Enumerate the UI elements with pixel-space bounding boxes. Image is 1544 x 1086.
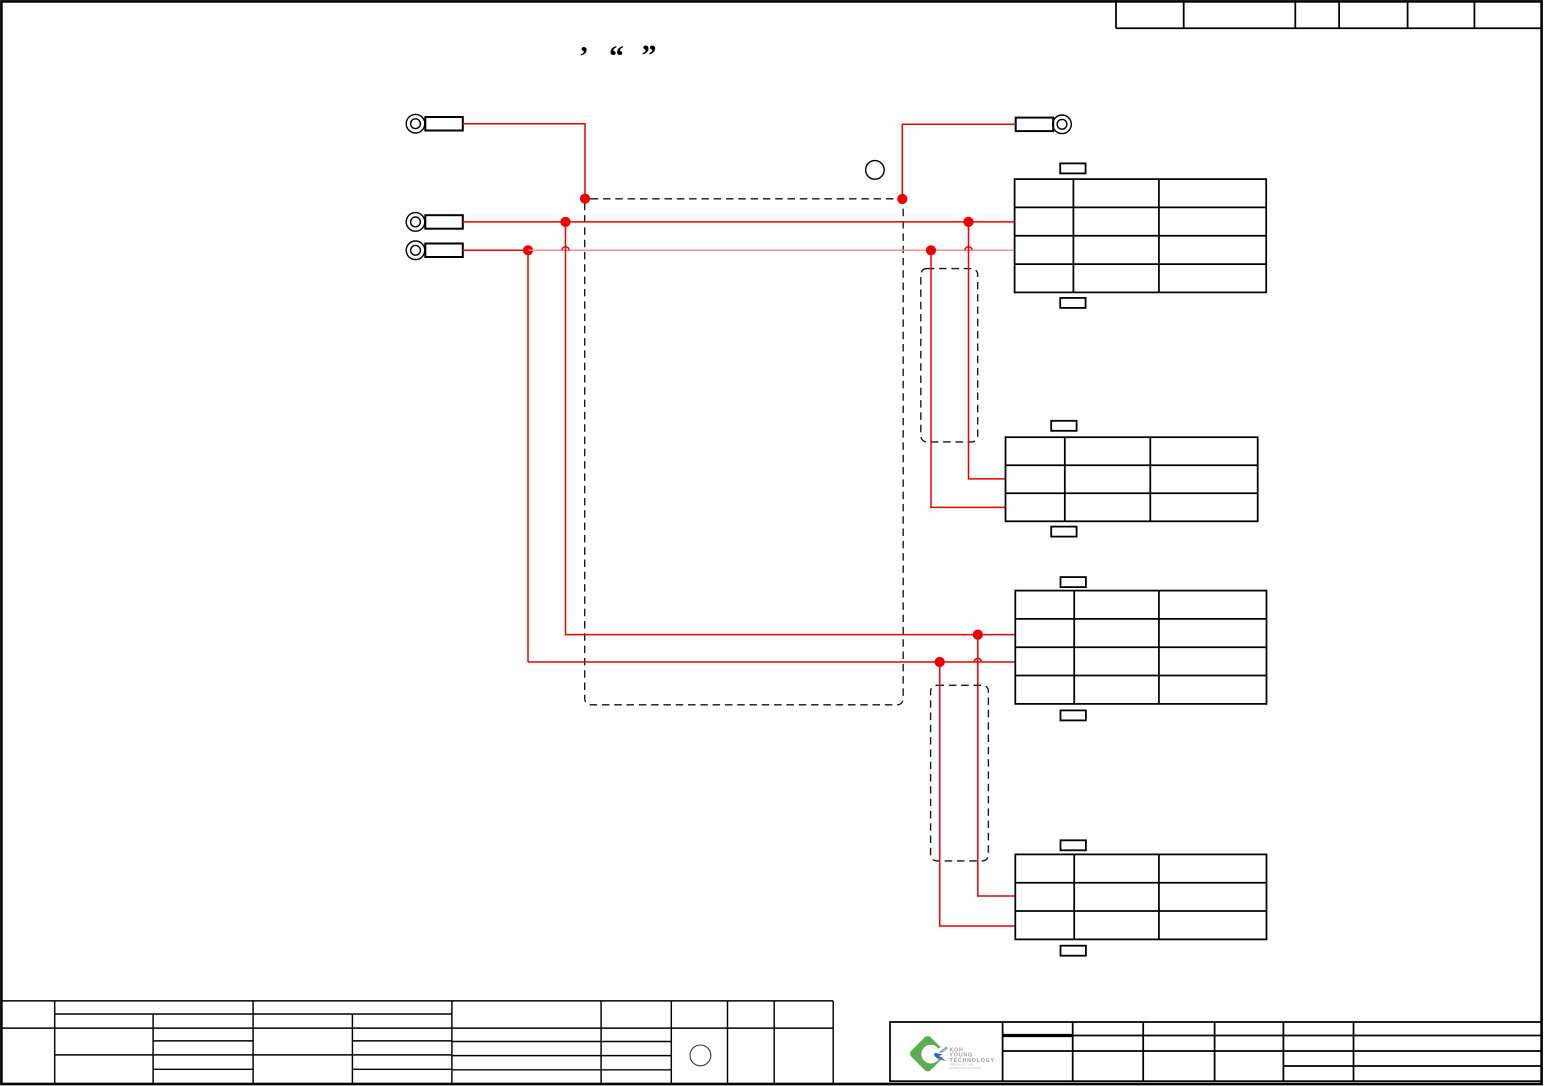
revision strip table top right xyxy=(1116,3,1542,29)
balloon circle xyxy=(866,161,885,180)
label box CN1 bottom xyxy=(1060,298,1085,308)
label box CN3 bottom xyxy=(1061,710,1086,720)
label box CN3 top xyxy=(1061,577,1086,587)
label box CN4 top xyxy=(1061,840,1086,850)
node dot J4 xyxy=(963,217,973,227)
node dot J7 xyxy=(973,630,983,640)
title punctuation marks xyxy=(581,26,657,73)
wire W3 stub xyxy=(463,249,528,251)
ring terminal TR1 xyxy=(1016,115,1072,134)
logo white notch wedge xyxy=(931,1039,953,1061)
hop arc at J3 crossing xyxy=(562,247,569,251)
logo bolt dark part xyxy=(934,1053,947,1062)
label box CN2 top xyxy=(1051,421,1076,431)
logo bolt light part xyxy=(938,1046,948,1053)
ring terminal TL2 xyxy=(406,213,463,232)
wire W1 left xyxy=(463,124,585,199)
node dot J3 xyxy=(560,217,570,227)
ring terminal TL1 xyxy=(406,114,463,133)
connector table CN1 xyxy=(1015,179,1267,292)
wire W1 right xyxy=(902,124,1015,199)
hop arc at J7 crossing xyxy=(974,658,981,662)
label box CN2 bottom xyxy=(1051,527,1076,537)
connector table CN4 xyxy=(1015,854,1266,939)
wire W2 vertical drop xyxy=(566,222,1016,635)
wire to table4 row2 xyxy=(978,635,1016,896)
thick divider segment xyxy=(1003,1034,1073,1037)
svg-text:“: “ xyxy=(609,40,624,73)
title block bottom left xyxy=(1,1001,833,1084)
svg-text:”: ” xyxy=(642,39,657,72)
Koh Young logo diamond xyxy=(908,1034,947,1073)
wire W3 vertical drop xyxy=(527,250,529,662)
connector table CN3 xyxy=(1015,591,1266,704)
wire W2 horizontal xyxy=(463,221,1015,223)
label box CN4 bottom xyxy=(1061,946,1086,956)
node dot J6 xyxy=(926,245,936,255)
wire W3 lower horizontal with hop xyxy=(528,661,1015,663)
hop arc at J4 crossing xyxy=(965,247,972,251)
node dot J8 xyxy=(935,657,945,667)
svg-text:,: , xyxy=(581,26,588,58)
ring terminal TL3 xyxy=(406,241,463,260)
title block bottom right xyxy=(890,1022,1541,1081)
dashed box B2 xyxy=(921,269,978,442)
wire to table2 row3 xyxy=(931,250,1006,507)
wire W3 pink horizontal with hops xyxy=(528,249,1015,251)
svg-text:INSPECTION SYSTEMS: INSPECTION SYSTEMS xyxy=(950,1066,981,1070)
stamp circle xyxy=(690,1045,711,1066)
node dot J5 xyxy=(523,245,533,255)
logo white C hole xyxy=(921,1045,940,1064)
label box CN1 top xyxy=(1060,163,1085,173)
dashed harness box main xyxy=(585,199,904,705)
node dot J1 xyxy=(580,194,590,204)
logo wordmark xyxy=(950,1047,995,1064)
logo tagline xyxy=(950,1063,981,1070)
node dot J2 xyxy=(897,194,907,204)
wire to table4 row3 xyxy=(940,662,1016,926)
dashed box B3 xyxy=(931,685,989,861)
connector table CN2 xyxy=(1006,437,1258,521)
wire to table2 row2 xyxy=(969,222,1006,479)
